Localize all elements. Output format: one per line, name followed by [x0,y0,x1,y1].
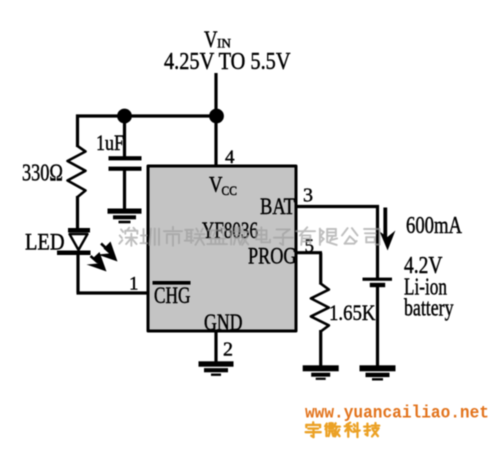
junction dot at VCC column [209,109,224,124]
resistor 330ohm [68,146,86,197]
resistor R1 1.65K [311,284,329,332]
svg-text:2: 2 [223,339,233,361]
wire top horizontal rail [76,114,216,117]
svg-text:600mA: 600mA [406,213,463,239]
wire left branch down [76,115,79,148]
svg-text:1: 1 [129,274,139,295]
LED D1 [57,228,91,255]
wire LED to pin1 [77,253,151,293]
ground for battery [360,365,396,380]
wire PROG to resistor [296,253,322,285]
wire capacitor to ground [123,170,126,210]
node VIN label [204,27,232,52]
svg-text:www.yuancailiao.net: www.yuancailiao.net [305,404,489,424]
svg-text:330Ω: 330Ω [22,161,63,187]
watermark text shenzhen company [119,227,379,246]
wire BAT to battery [296,205,379,278]
wire resistor to LED [76,196,79,229]
svg-text:battery: battery [404,296,454,322]
label CHG with overline [153,281,191,308]
op-amp/IC U1 YF8036 box [148,166,296,331]
svg-text:1.65K: 1.65K [329,300,376,325]
current arrow 600mA [380,208,396,251]
ground for capacitor [108,209,142,224]
wire battery to ground [376,287,379,366]
ground for 1.65K resistor [303,365,339,380]
wire GND pin to ground [214,332,217,362]
svg-text:4: 4 [225,147,235,168]
svg-text:LED: LED [25,230,65,255]
svg-text:1uF: 1uF [96,130,124,155]
LED emission arrows [87,242,118,272]
svg-text:3: 3 [303,185,313,207]
ground for IC GND [199,361,234,376]
wire resistor to ground [319,330,322,366]
wire junction to capacitor [123,116,126,157]
wire VIN vertical [214,73,217,166]
junction dot at capacitor column [117,109,132,124]
svg-text:GND: GND [204,310,243,335]
label VCC [209,172,237,199]
battery BT1 [363,278,393,288]
svg-text:BAT: BAT [260,194,295,219]
brand yuwei keji [306,422,380,437]
svg-text:CC: CC [222,183,238,198]
svg-text:PROG: PROG [248,244,297,269]
svg-text:4.25V TO 5.5V: 4.25V TO 5.5V [164,49,291,75]
capacitor C1 1uF [109,156,142,171]
svg-text:CHG: CHG [154,283,191,308]
